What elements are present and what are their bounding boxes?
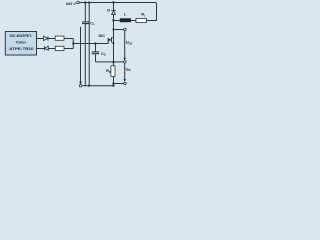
svg-text:SiC: SiC (98, 33, 105, 38)
svg-text:SiC-MOSFET-: SiC-MOSFET- (10, 33, 33, 38)
svg-text:M: M (109, 70, 111, 74)
svg-text:ATPE-TR10: ATPE-TR10 (9, 46, 33, 51)
svg-text:M: M (128, 68, 130, 72)
svg-text:D: D (107, 8, 110, 13)
svg-text:Treiber: Treiber (16, 39, 27, 44)
svg-text:620 V: 620 V (66, 1, 77, 6)
svg-text:G: G (104, 53, 106, 57)
svg-text:DS: DS (129, 41, 133, 45)
